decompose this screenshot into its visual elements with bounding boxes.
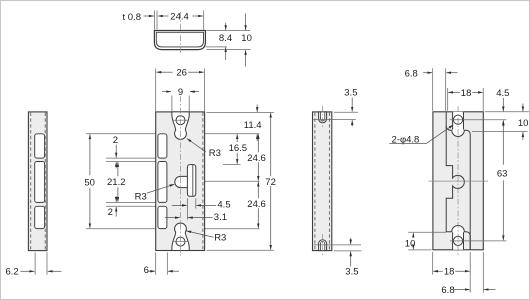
middle tab circle with neck	[175, 176, 188, 187]
dim 18 top	[448, 91, 483, 93]
dim 24.6 upper	[257, 134, 259, 181]
hole crosshair/extension bottom	[450, 240, 507, 242]
dim 6.8 top extension lines	[432, 68, 434, 111]
svg-text:t 0.8: t 0.8	[123, 12, 142, 23]
left view slot 1	[35, 134, 45, 158]
dim 8.4 arrows	[225, 23, 227, 30]
dim 10 arrows	[245, 14, 247, 31]
hidden line near right edge	[202, 113, 204, 251]
hidden line left	[314, 113, 316, 250]
dim 72	[270, 113, 272, 250]
svg-text:2: 2	[113, 135, 118, 146]
svg-text:6.2: 6.2	[6, 266, 19, 277]
dim 6 extension lines	[155, 252, 157, 274]
dim 24.4	[158, 15, 169, 17]
centerline front view	[179, 96, 181, 256]
extension below middle slot	[186, 198, 188, 219]
long line through R3 top centers	[86, 133, 260, 135]
3.5 top reference line	[314, 119, 356, 121]
3.5 bottom reference line	[314, 244, 362, 246]
middle vertical slot	[187, 165, 195, 197]
svg-text:R3: R3	[135, 192, 147, 203]
dim 9 extension lines	[171, 96, 173, 112]
cup fill below top line	[452, 130, 465, 136]
long line through R3 bottom centers	[86, 228, 260, 230]
dim 3.5 bottom	[350, 238, 352, 244]
bottom edge extension right	[207, 249, 274, 251]
back view bottom hole	[453, 236, 462, 245]
dim 18 bottom extension lines	[432, 252, 434, 275]
top hole channel	[453, 112, 464, 132]
svg-text:26: 26	[176, 68, 187, 79]
svg-text:3.5: 3.5	[344, 87, 357, 98]
svg-text:24.6: 24.6	[247, 199, 265, 210]
right rail with lips	[446, 126, 470, 250]
front slot 3	[158, 206, 167, 228]
svg-text:6.8: 6.8	[405, 68, 418, 79]
hidden line right	[328, 113, 330, 250]
dim 4.5	[172, 204, 187, 206]
svg-text:8.4: 8.4	[219, 33, 232, 44]
dim 2 bottom	[106, 201, 159, 203]
horizontal centerline back view	[429, 180, 489, 182]
side view bottom edge extension	[334, 250, 362, 252]
left rail with middle step and bump	[446, 112, 470, 250]
left view slot 2	[35, 162, 45, 203]
back view body	[433, 112, 483, 250]
top keyhole slot	[172, 112, 189, 140]
bottom keyhole slot	[172, 223, 189, 251]
inner line of middle slot	[192, 165, 194, 196]
bottom slot inner	[320, 241, 324, 250]
dim 18 bottom	[433, 270, 470, 272]
svg-text:24.4: 24.4	[170, 12, 189, 23]
side view top edge extension	[334, 111, 358, 113]
vertical centerline back view	[457, 106, 459, 256]
svg-text:3.5: 3.5	[345, 266, 358, 277]
left view body	[28, 112, 47, 251]
svg-text:21.2: 21.2	[107, 177, 126, 188]
top edge extension right	[207, 111, 274, 113]
svg-text:R3: R3	[214, 232, 226, 243]
svg-text:72: 72	[265, 177, 276, 188]
svg-text:50: 50	[84, 177, 95, 188]
hole crosshair bottom	[173, 241, 188, 243]
top slot inner	[320, 112, 324, 121]
dim 26	[157, 71, 173, 73]
dim 6.2	[34, 252, 36, 275]
svg-text:10: 10	[518, 118, 529, 129]
middle horizontal reference line	[156, 180, 259, 182]
svg-text:R3: R3	[209, 148, 221, 159]
dim 26 extension lines	[155, 69, 157, 112]
top mounting hole	[176, 116, 185, 125]
svg-text:10: 10	[241, 33, 252, 44]
bottom mounting hole	[176, 237, 185, 246]
dim 8.4 / 10 extension lines	[207, 30, 251, 32]
svg-text:11.4: 11.4	[244, 120, 262, 131]
dim 9	[162, 91, 171, 93]
dim 63	[502, 121, 504, 165]
dim 21.2	[117, 162, 119, 176]
hidden line right	[44, 113, 46, 250]
channel outer profile	[154, 31, 205, 50]
front slot 2	[158, 162, 167, 203]
10 right reference line	[472, 131, 527, 133]
svg-text:16.5: 16.5	[229, 143, 248, 154]
svg-text:4.5: 4.5	[217, 200, 230, 211]
svg-text:2: 2	[108, 207, 113, 218]
centerline top view	[179, 12, 181, 55]
hole crosshair top	[173, 119, 188, 121]
centerline bottom	[322, 234, 324, 257]
svg-text:4.5: 4.5	[496, 88, 509, 99]
dim 3.1	[165, 217, 180, 219]
svg-text:24.6: 24.6	[247, 153, 265, 164]
dim 24.6 lower	[257, 182, 259, 229]
svg-text:6: 6	[144, 265, 149, 276]
svg-text:10: 10	[405, 238, 416, 249]
hole crosshair/extension top	[450, 119, 507, 121]
16.5 lower reference line	[223, 163, 241, 165]
side view body	[313, 112, 332, 251]
svg-text:63: 63	[497, 169, 508, 180]
svg-text:6.8: 6.8	[441, 285, 454, 296]
dim 10 bottom left	[408, 231, 446, 233]
hidden line left	[30, 113, 32, 250]
svg-text:18: 18	[444, 267, 455, 278]
svg-text:9: 9	[178, 87, 183, 98]
bottom hole channel	[453, 230, 464, 250]
dim 50	[89, 134, 91, 175]
bottom slot outer	[319, 240, 327, 251]
svg-text:3.1: 3.1	[214, 212, 227, 223]
channel inner profile (wall t0.8)	[156, 32, 203, 47]
left view slot 3	[35, 206, 45, 228]
svg-text:18: 18	[461, 88, 472, 99]
top slot outer	[319, 112, 327, 123]
dim 18 top extension lines	[447, 88, 449, 111]
front view body	[156, 112, 205, 251]
centerline top	[322, 106, 324, 129]
front slot 1	[158, 134, 167, 158]
dome fill above bottom line	[452, 225, 465, 231]
back view top edge extension right	[485, 111, 529, 113]
back view top hole	[453, 115, 462, 124]
